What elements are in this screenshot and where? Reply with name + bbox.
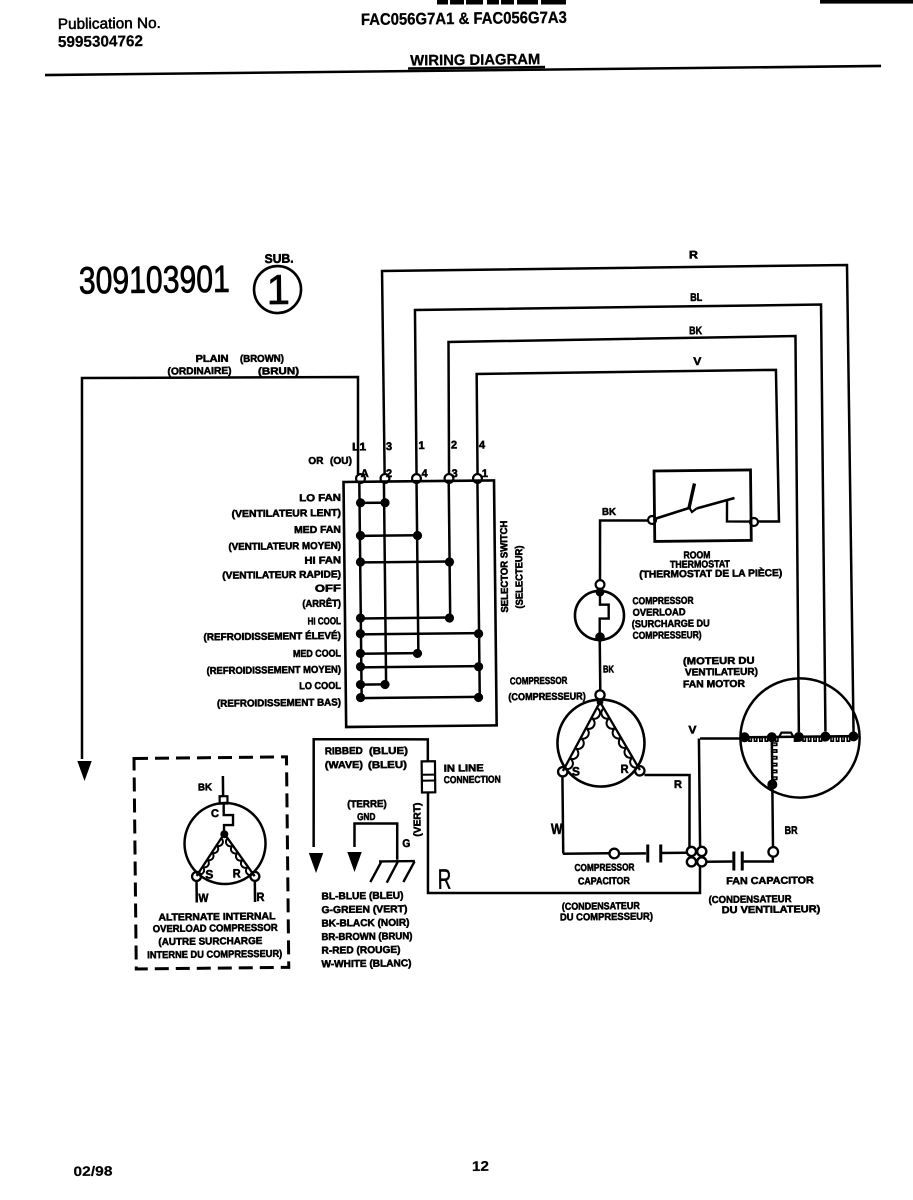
svg-text:BK: BK	[198, 782, 213, 793]
svg-text:V: V	[688, 724, 697, 736]
svg-text:HI FAN: HI FAN	[304, 555, 341, 566]
wire: to compressor capacitor	[563, 852, 610, 855]
svg-text:W: W	[198, 891, 209, 905]
alternate compressor run winding	[225, 834, 255, 877]
fan capacitor terminal	[768, 847, 778, 857]
in-line connection symbol	[422, 761, 436, 792]
svg-text:R: R	[674, 779, 682, 791]
svg-text:(BLUE): (BLUE)	[369, 746, 408, 757]
svg-text:R: R	[233, 866, 241, 880]
alternate compressor terminal S	[192, 872, 201, 881]
wire: BK into alternate compressor	[222, 776, 225, 796]
wire: W from S terminal down	[561, 777, 564, 854]
fan motor winding teeth	[749, 737, 850, 741]
svg-text:BL-BLUE (BLEU): BL-BLUE (BLEU)	[321, 891, 403, 903]
svg-text:309103901: 309103901	[79, 259, 230, 303]
svg-text:BK: BK	[689, 325, 702, 337]
svg-text:BR-BROWN (BRUN): BR-BROWN (BRUN)	[321, 931, 412, 943]
wire: V branch down to cluster	[699, 738, 700, 846]
selector column wire 2	[384, 483, 386, 684]
alternate compressor terminal R	[250, 872, 259, 881]
label: COMPRESSOR (COMPRESSEUR)	[508, 676, 586, 704]
wire: cluster to fan capacitor	[706, 860, 732, 863]
overload protector element	[599, 592, 609, 637]
svg-text:BK: BK	[603, 664, 615, 675]
label: RIBBED (BLUE) / (WAVE) (BLEU)	[325, 745, 408, 771]
thermostat switch blade 2	[696, 498, 734, 509]
alternate compressor internal overload element	[224, 804, 234, 834]
svg-text:INTERNE DU COMPRESSEUR): INTERNE DU COMPRESSEUR)	[147, 949, 282, 961]
svg-text:V: V	[693, 356, 702, 368]
wire color legend	[321, 890, 413, 970]
svg-text:4: 4	[421, 468, 428, 480]
label: COMPRESSOR CAPACITOR	[574, 862, 635, 887]
selector HI COOL compressor contact row A-1	[356, 628, 483, 640]
selector column wire 4	[417, 483, 419, 653]
selector LO COOL contact row A-2	[356, 680, 390, 690]
svg-text:(OU): (OU)	[330, 456, 352, 467]
svg-text:1: 1	[266, 266, 290, 313]
fan motor winding junction dots	[740, 731, 859, 743]
svg-text:FAN MOTOR: FAN MOTOR	[683, 679, 746, 691]
svg-text:(VERT): (VERT)	[412, 803, 423, 837]
thermostat switch notch	[690, 508, 697, 512]
svg-text:SUB.: SUB.	[265, 252, 294, 266]
overload top terminal	[596, 580, 605, 589]
wire loop V (violet)	[476, 370, 779, 525]
svg-text:COMPRESSEUR): COMPRESSEUR)	[633, 630, 702, 642]
chassis ground symbol	[370, 861, 415, 883]
svg-text:COMPRESSOR: COMPRESSOR	[574, 862, 635, 874]
svg-text:ALTERNATE INTERNAL: ALTERNATE INTERNAL	[158, 911, 275, 923]
wire	[743, 857, 772, 862]
alternate compressor winding junction	[220, 830, 228, 838]
wire: W lead	[195, 881, 198, 902]
svg-text:(VENTILATEUR RAPIDE): (VENTILATEUR RAPIDE)	[222, 569, 341, 581]
label: ROOM THERMOSTAT (THERMOSTAT DE LA PIECE)	[639, 549, 782, 580]
alternate compressor dashed box	[134, 757, 289, 969]
svg-text:4: 4	[479, 439, 486, 451]
svg-text:5995304762: 5995304762	[58, 33, 143, 51]
svg-text:CONNECTION: CONNECTION	[444, 775, 501, 787]
svg-text:02/98: 02/98	[73, 1164, 113, 1179]
wire	[619, 852, 646, 855]
svg-text:G: G	[402, 838, 410, 850]
svg-text:PLAIN: PLAIN	[196, 354, 229, 365]
arrow: plain wire end	[77, 761, 92, 781]
svg-text:FAC056G7A1 & FAC056G7A3: FAC056G7A1 & FAC056G7A3	[361, 9, 567, 29]
svg-text:COMPRESSOR: COMPRESSOR	[510, 676, 568, 688]
selector column wire 1	[477, 483, 479, 697]
svg-text:BK-BLACK (NOIR): BK-BLACK (NOIR)	[321, 918, 409, 930]
selector switch terminal labels row 1: L1 3 1 2 4	[352, 439, 486, 453]
label: (CONDENSATEUR DU COMPRESSEUR)	[560, 901, 653, 924]
wire: green wire from in-line connection to junction cluster	[427, 790, 700, 896]
svg-text:SELECTOR SWITCH: SELECTOR SWITCH	[499, 521, 511, 613]
selector column wire A	[359, 483, 361, 697]
svg-text:VENTILATEUR): VENTILATEUR)	[685, 667, 758, 679]
wire loop R (red)	[382, 265, 854, 737]
wire	[662, 851, 688, 854]
arrow: ground wire end	[347, 852, 362, 872]
compressor capacitor plates	[648, 844, 661, 862]
svg-text:R: R	[438, 864, 452, 895]
svg-text:(BROWN): (BROWN)	[240, 354, 284, 365]
room thermostat box	[654, 470, 751, 542]
svg-text:(VENTILATEUR LENT): (VENTILATEUR LENT)	[232, 508, 342, 520]
svg-text:R: R	[256, 890, 264, 904]
wire: ground wire	[354, 823, 397, 860]
wire: V branch into fan motor	[700, 737, 743, 739]
wire: BR to fan motor	[771, 789, 774, 847]
compressor terminal S	[558, 767, 568, 777]
compressor winding junction	[597, 699, 604, 706]
svg-text:R: R	[689, 249, 698, 261]
svg-text:OVERLOAD: OVERLOAD	[632, 607, 685, 619]
svg-text:HI COOL: HI COOL	[308, 616, 341, 627]
svg-text:(WAVE): (WAVE)	[325, 760, 363, 771]
wire: ribbed blue wire	[312, 738, 428, 847]
header rule line	[45, 66, 881, 75]
thermostat switch flag	[689, 484, 695, 508]
label: OR (OU)	[308, 456, 352, 468]
fan motor winding crossover hump	[779, 733, 794, 737]
svg-text:FAN CAPACITOR: FAN CAPACITOR	[726, 875, 814, 887]
thermostat switch blade	[656, 508, 689, 519]
compressor terminal R	[635, 766, 645, 776]
svg-text:12: 12	[472, 1158, 489, 1174]
fan motor auxiliary winding vertical	[771, 737, 774, 784]
svg-text:(MOTEUR DU: (MOTEUR DU	[683, 656, 755, 668]
label: (TERRE) GND	[347, 799, 387, 823]
svg-text:G-GREEN (VERT): G-GREEN (VERT)	[321, 904, 407, 916]
svg-text:DU VENTILATEUR): DU VENTILATEUR)	[722, 904, 821, 916]
selector switch box	[344, 480, 497, 727]
svg-text:(COMPRESSEUR): (COMPRESSEUR)	[508, 691, 586, 703]
selector MED COOL compressor contact row A-1	[356, 661, 483, 673]
arrow: ribbed wire end	[309, 853, 324, 873]
label: COMPRESSOR OVERLOAD (SURCHARGE DU COMPRESSEUR)	[631, 595, 709, 641]
selector LO FAN contact row A-2	[356, 498, 390, 508]
svg-text:CAPACITOR: CAPACITOR	[578, 876, 631, 888]
alternate compressor circle	[184, 803, 266, 885]
svg-text:OR: OR	[308, 456, 324, 467]
label: (MOTEUR DU VENTILATEUR) FAN MOTOR	[683, 656, 759, 691]
svg-text:S: S	[572, 764, 580, 778]
svg-text:Publication No.: Publication No.	[58, 15, 161, 33]
svg-text:BL: BL	[690, 292, 702, 304]
quick-connect junction cluster	[687, 847, 707, 867]
svg-text:(VENTILATEUR MOYEN): (VENTILATEUR MOYEN)	[228, 541, 341, 553]
compressor start winding (to S)	[562, 702, 601, 771]
fan capacitor plates	[734, 851, 743, 870]
svg-text:BR: BR	[785, 825, 798, 837]
svg-text:LO FAN: LO FAN	[299, 493, 341, 504]
svg-text:W: W	[551, 821, 563, 838]
svg-text:COMPRESSOR: COMPRESSOR	[632, 596, 694, 608]
svg-text:(BLEU): (BLEU)	[368, 760, 407, 771]
wire: BK thermostat to overload	[599, 520, 648, 581]
svg-text:DU COMPRESSEUR): DU COMPRESSEUR)	[560, 911, 653, 923]
svg-text:(SURCHARGE DU: (SURCHARGE DU	[632, 618, 710, 630]
overload top junction dot	[596, 588, 605, 597]
compressor top terminal C	[595, 690, 604, 699]
svg-text:R-RED (ROUGE): R-RED (ROUGE)	[321, 945, 400, 957]
svg-text:LO COOL: LO COOL	[299, 681, 341, 692]
svg-text:(ORDINAIRE): (ORDINAIRE)	[167, 366, 231, 378]
header: cut-off brand name at top edge	[437, 0, 566, 5]
selector column wire 3	[449, 483, 450, 618]
wire: plain brown supply wire L1	[78, 375, 362, 759]
compressor motor circle	[557, 699, 645, 787]
svg-text:(REFROIDISSEMENT ÉLEVÉ): (REFROIDISSEMENT ÉLEVÉ)	[203, 629, 341, 643]
thermostat contact wire	[727, 500, 750, 522]
overload bottom junction dot	[595, 632, 605, 642]
selector switch position labels (left side)	[202, 493, 343, 710]
compressor capacitor terminal	[609, 849, 619, 859]
wire: R from compressor R terminal	[645, 774, 691, 847]
thermostat right terminal	[750, 518, 758, 526]
wire: R lead	[254, 881, 257, 902]
selector LO COOL compressor contact row A-1	[356, 692, 483, 704]
svg-text:(THERMOSTAT DE LA PIÈCE): (THERMOSTAT DE LA PIÈCE)	[639, 566, 782, 581]
label: IN LINE CONNECTION	[444, 763, 501, 786]
alternate compressor start winding	[196, 834, 224, 876]
thermostat left terminal	[648, 516, 656, 524]
svg-text:OVERLOAD COMPRESSOR: OVERLOAD COMPRESSOR	[153, 923, 279, 935]
selector switch terminal circles	[356, 473, 482, 484]
label: (CONDENSATEUR DU VENTILATEUR)	[709, 894, 821, 917]
header: thick black mark top right	[820, 0, 913, 4]
compressor overload circle	[575, 591, 625, 641]
svg-text:OFF: OFF	[315, 583, 341, 594]
wire: BK overload to compressor	[598, 640, 601, 690]
svg-text:(AUTRE SURCHARGE: (AUTRE SURCHARGE	[158, 936, 262, 948]
alternate compressor terminal square	[220, 796, 228, 803]
svg-text:MED FAN: MED FAN	[294, 525, 341, 537]
svg-text:L1: L1	[352, 441, 366, 453]
compressor run winding (to R)	[600, 702, 640, 771]
svg-text:MED COOL: MED COOL	[293, 648, 341, 660]
svg-text:(REFROIDISSEMENT BAS): (REFROIDISSEMENT BAS)	[217, 697, 341, 709]
svg-text:(TERRE): (TERRE)	[347, 799, 387, 810]
svg-text:GND: GND	[357, 812, 376, 823]
svg-text:C: C	[211, 808, 219, 820]
svg-text:IN LINE: IN LINE	[444, 763, 484, 774]
svg-text:(BRUN): (BRUN)	[258, 366, 299, 377]
svg-text:BK: BK	[602, 507, 617, 518]
svg-text:R: R	[620, 762, 628, 776]
fan motor auxiliary winding bottom dot	[767, 779, 777, 789]
svg-text:3: 3	[386, 441, 392, 453]
svg-text:(REFROIDISSEMENT MOYEN): (REFROIDISSEMENT MOYEN)	[206, 665, 341, 677]
revision circle 1	[254, 266, 302, 314]
svg-text:(SELECTEUR): (SELECTEUR)	[514, 545, 526, 608]
svg-text:1: 1	[418, 440, 424, 452]
selector HI FAN contact row A-3	[356, 556, 454, 567]
svg-text:W-WHITE (BLANC): W-WHITE (BLANC)	[321, 958, 411, 970]
fan motor main winding line	[744, 736, 855, 737]
selector MED COOL contact row A-4	[356, 648, 422, 659]
fan motor circle	[740, 678, 860, 798]
svg-text:RIBBED: RIBBED	[325, 746, 363, 757]
selector switch terminal labels row 2: A 2 4 3 1	[361, 467, 488, 482]
label: PLAIN (BROWN) / (ORDINAIRE) (BRUN)	[167, 353, 299, 379]
selector HI COOL contact row A-3	[356, 612, 454, 623]
wire loop BK (black)	[448, 336, 800, 736]
svg-text:S: S	[205, 867, 213, 881]
svg-text:(ARRÊT): (ARRÊT)	[302, 597, 341, 610]
label: ALTERNATE INTERNAL OVERLOAD COMPRESSOR	[147, 911, 283, 961]
selector MED FAN contact row A-4	[356, 530, 422, 541]
svg-text:2: 2	[451, 439, 457, 451]
wire loop BL (blue)	[415, 305, 826, 736]
